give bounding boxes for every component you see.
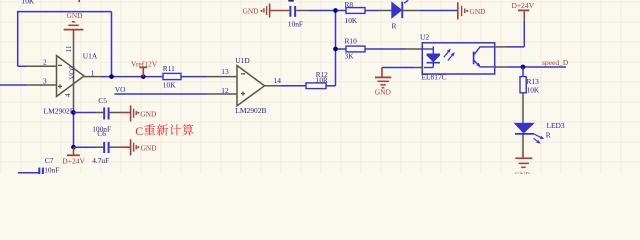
svg-text:R10: R10 [345,37,358,46]
svg-text:EL817C: EL817C [422,72,447,81]
svg-text:10nF: 10nF [44,165,59,174]
svg-text:VO: VO [115,85,126,94]
svg-text:GND: GND [470,7,487,16]
svg-text:speed_D: speed_D [542,58,569,67]
svg-text:D+24V: D+24V [512,1,535,10]
svg-text:3: 3 [43,77,47,86]
svg-text:LM2902B: LM2902B [44,107,75,116]
svg-text:GND: GND [243,7,260,16]
svg-text:U2: U2 [420,33,429,42]
svg-text:2: 2 [43,58,47,67]
svg-text:U1A: U1A [83,51,98,60]
svg-text:14: 14 [274,76,282,85]
svg-text:10R: 10R [316,77,328,85]
svg-text:3K: 3K [345,52,355,61]
svg-text:U1D: U1D [235,56,250,65]
svg-text:10K: 10K [527,86,540,95]
svg-text:Vref12V: Vref12V [131,59,158,68]
svg-text:C: C [135,124,143,138]
svg-text:C5: C5 [98,96,107,105]
svg-text:11: 11 [64,45,73,52]
svg-text:10K: 10K [22,0,35,5]
svg-text:GND: GND [140,110,157,119]
svg-text:12: 12 [221,86,229,95]
svg-text:LM2902B: LM2902B [235,106,266,115]
svg-text:C6: C6 [97,129,106,138]
svg-text:D+24V: D+24V [62,156,85,165]
svg-text:10K: 10K [345,16,358,25]
svg-text:LED3: LED3 [547,121,565,130]
svg-text:R: R [546,130,551,139]
svg-text:GND: GND [515,171,532,175]
svg-text:C7: C7 [45,156,54,165]
svg-text:R8: R8 [345,0,354,9]
svg-text:4: 4 [63,93,72,97]
svg-text:R: R [392,21,397,30]
svg-text:GND: GND [375,87,392,96]
svg-text:VCC: VCC [70,65,77,79]
svg-text:10nF: 10nF [288,19,303,28]
svg-text:GND: GND [141,144,158,153]
svg-text:GND: GND [67,11,84,20]
svg-text:1: 1 [91,69,95,78]
svg-text:13: 13 [221,67,229,76]
svg-text:R11: R11 [163,64,175,73]
svg-text:4.7uF: 4.7uF [92,156,109,165]
svg-text:10K: 10K [163,81,176,90]
